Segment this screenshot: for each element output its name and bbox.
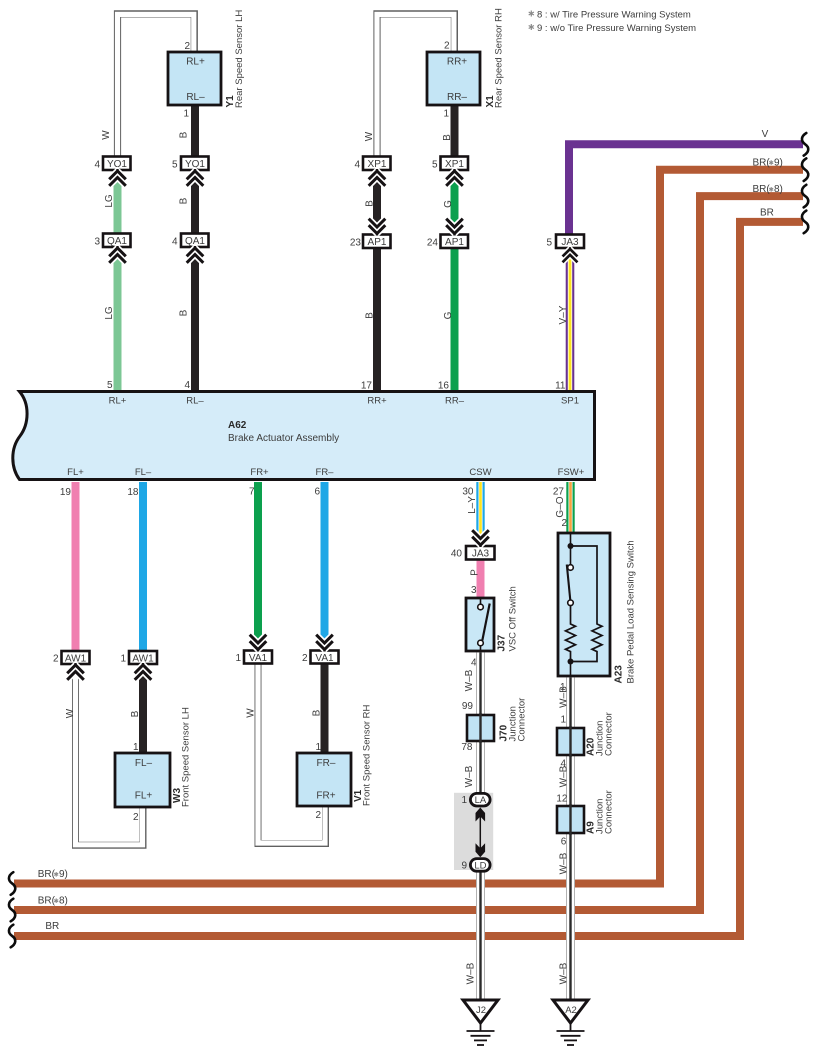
svg-text:2: 2 xyxy=(133,812,139,823)
wire V (violet) to JA3 xyxy=(569,129,808,235)
svg-text:5: 5 xyxy=(546,238,552,249)
svg-text:1: 1 xyxy=(443,109,449,120)
svg-text:2: 2 xyxy=(444,41,450,52)
svg-text:W–B: W–B xyxy=(559,686,570,708)
svg-text:BR(: BR( xyxy=(753,184,771,195)
wire B (XP1 to AP1) xyxy=(373,180,381,226)
svg-text:24: 24 xyxy=(427,238,439,249)
svg-text:W–B: W–B xyxy=(464,765,475,787)
svg-text:B: B xyxy=(179,309,190,316)
wire W (Y1 pin2 loop to YQ1) xyxy=(118,14,195,158)
wire LG (QA1 to A62 pin5) xyxy=(114,257,122,391)
svg-text:G: G xyxy=(443,200,454,208)
svg-text:V–Y: V–Y xyxy=(558,305,569,324)
svg-text:B: B xyxy=(179,197,190,204)
wire W (X1 pin2 loop to XP1) xyxy=(377,14,454,158)
svg-text:A23: A23 xyxy=(614,665,625,684)
junction connector A20 xyxy=(557,712,615,769)
svg-text:4: 4 xyxy=(354,160,360,171)
svg-text:Brake Pedal Load Sensing Switc: Brake Pedal Load Sensing Switch xyxy=(626,540,637,683)
svg-text:B: B xyxy=(130,710,141,717)
wire B (AW1 to W3 pin1) xyxy=(139,674,147,754)
svg-text:W–B: W–B xyxy=(464,669,475,691)
switch J37 VSC Off Switch xyxy=(466,586,519,668)
wire L (A62 pin6 to VA1) xyxy=(321,482,329,641)
svg-text:18: 18 xyxy=(127,487,139,498)
svg-text:1: 1 xyxy=(183,109,189,120)
svg-text:9): 9) xyxy=(59,869,68,880)
svg-text:1: 1 xyxy=(461,795,467,806)
svg-text:RL+: RL+ xyxy=(186,57,205,68)
wire P (JA3 to J37 pin3) xyxy=(470,559,481,598)
svg-text:3: 3 xyxy=(94,237,100,248)
svg-text:9): 9) xyxy=(774,157,783,168)
ground A2 xyxy=(553,1000,588,1045)
svg-text:4: 4 xyxy=(94,160,100,171)
svg-text:VSC Off Switch: VSC Off Switch xyxy=(508,586,519,651)
sensor Y1 xyxy=(168,10,245,120)
wire G (XP1 to AP1) xyxy=(451,180,459,226)
wire B (AP1 to A62 pin17) xyxy=(373,248,381,391)
svg-text:23: 23 xyxy=(350,238,362,249)
connector 4 QA1 xyxy=(172,234,209,248)
junction connector J70 xyxy=(461,698,527,753)
svg-text:W: W xyxy=(364,131,375,141)
svg-text:19: 19 xyxy=(60,487,72,498)
wire B (VA1 to V1 pin1) xyxy=(321,664,329,754)
svg-text:FL+: FL+ xyxy=(67,467,84,478)
svg-text:4: 4 xyxy=(172,237,178,248)
svg-text:8): 8) xyxy=(59,895,68,906)
svg-text:1: 1 xyxy=(235,653,241,664)
svg-text:JA3: JA3 xyxy=(472,549,490,560)
svg-text:5: 5 xyxy=(432,160,438,171)
svg-text:CSW: CSW xyxy=(469,467,491,478)
svg-text:LG: LG xyxy=(104,306,115,320)
svg-text:J2: J2 xyxy=(476,1005,486,1016)
svg-text:Front Speed Sensor LH: Front Speed Sensor LH xyxy=(181,707,192,807)
wire W (AW1 loop to W3 pin2) xyxy=(76,674,144,846)
svg-text:2: 2 xyxy=(302,653,308,664)
svg-text:Brake Actuator Assembly: Brake Actuator Assembly xyxy=(228,433,339,444)
svg-text:A2: A2 xyxy=(565,1005,577,1016)
svg-text:W: W xyxy=(101,130,112,140)
wire L (A62 pin18 to AW1) xyxy=(139,482,147,651)
wire P pink (A62 pin19 to AW1) xyxy=(72,482,80,651)
wire G (A62 pin7 to VA1) xyxy=(254,482,262,641)
svg-text:W–B: W–B xyxy=(559,852,570,874)
svg-text:B: B xyxy=(365,200,376,207)
svg-text:30: 30 xyxy=(462,487,474,498)
svg-text:W–B: W–B xyxy=(559,962,570,984)
svg-text:6: 6 xyxy=(314,487,320,498)
svg-text:Rear Speed Sensor LH: Rear Speed Sensor LH xyxy=(234,10,245,108)
switch A23 Brake Pedal Load Sensing Switch xyxy=(558,533,637,693)
connector 1 AW1 xyxy=(120,651,157,665)
svg-text:27: 27 xyxy=(553,487,565,498)
ground J2 xyxy=(463,1000,498,1045)
svg-text:1: 1 xyxy=(315,742,321,753)
connector 3 QA1 xyxy=(94,234,130,248)
svg-text:17: 17 xyxy=(361,381,373,392)
wire G-O (A62 pin27 FSW+ to A23) xyxy=(555,482,571,534)
wire B (X1 pin1 to XP1) xyxy=(451,105,459,157)
connector 40 JA3 xyxy=(451,546,495,560)
svg-text:4: 4 xyxy=(560,759,566,770)
svg-text:VA1: VA1 xyxy=(249,653,268,664)
connector 1 VA1 xyxy=(235,651,272,665)
wire W-B (J37 to J70 to LA) xyxy=(464,653,481,794)
svg-text:LD: LD xyxy=(474,860,486,871)
svg-text:A62: A62 xyxy=(228,420,247,431)
connector 5 YQ1 xyxy=(172,157,209,171)
svg-text:RR+: RR+ xyxy=(447,57,467,68)
svg-text:BR(: BR( xyxy=(753,157,771,168)
junction connector A9 xyxy=(556,790,614,847)
brake actuator A62 xyxy=(13,380,595,498)
svg-text:AP1: AP1 xyxy=(445,237,464,248)
svg-text:RR+: RR+ xyxy=(367,396,387,407)
svg-text:12: 12 xyxy=(556,794,568,805)
shielded connectors LA / LD xyxy=(454,793,493,872)
svg-text:4: 4 xyxy=(184,380,190,391)
wire BR xyxy=(9,207,808,947)
svg-text:G–O: G–O xyxy=(555,496,566,517)
svg-text:40: 40 xyxy=(451,549,463,560)
connector 4 YQ1 xyxy=(94,157,130,171)
connector 2 VA1 xyxy=(302,651,339,665)
svg-text:BR(: BR( xyxy=(38,895,56,906)
svg-text:Connector: Connector xyxy=(604,712,615,756)
svg-text:Connector: Connector xyxy=(517,698,528,742)
svg-text:FR+: FR+ xyxy=(250,467,269,478)
sensor V1 xyxy=(297,704,373,821)
svg-text:BR: BR xyxy=(45,921,59,932)
svg-text:FR–: FR– xyxy=(317,758,336,769)
wire W-B (LD to ground J2) xyxy=(466,868,481,1000)
svg-text:FR–: FR– xyxy=(316,467,335,478)
wire B (QA1 to A62 pin4) xyxy=(191,257,199,391)
svg-text:L–Y: L–Y xyxy=(467,496,478,514)
connector 4 XP1 xyxy=(354,157,390,171)
svg-text:5: 5 xyxy=(107,380,113,391)
wire BR(*8) xyxy=(9,184,808,921)
svg-text:11: 11 xyxy=(555,381,566,392)
svg-text:2: 2 xyxy=(315,810,321,821)
wire V-Y (JA3 to A62 pin11 SP1) xyxy=(558,256,570,391)
svg-text:BR: BR xyxy=(760,207,774,218)
svg-text:B: B xyxy=(179,131,190,138)
svg-text:B: B xyxy=(442,134,453,141)
svg-text:16: 16 xyxy=(438,381,450,392)
wire W-B (A23 to A20 to A9 to ground A2) xyxy=(559,678,571,1001)
svg-text:1: 1 xyxy=(120,654,126,665)
svg-text:2: 2 xyxy=(561,518,567,529)
svg-text:W: W xyxy=(65,708,76,718)
wire color labels xyxy=(65,130,454,719)
svg-text:Front Speed Sensor RH: Front Speed Sensor RH xyxy=(362,704,373,806)
connector 5 XP1 xyxy=(432,157,468,171)
svg-text:6: 6 xyxy=(561,837,567,848)
svg-text:FSW+: FSW+ xyxy=(558,467,585,478)
wire W (VA1 loop to V1 pin2) xyxy=(258,664,326,844)
sensor W3 xyxy=(115,707,192,823)
sensor X1 xyxy=(427,8,505,119)
svg-text:1: 1 xyxy=(133,742,139,753)
svg-text:AP1: AP1 xyxy=(368,237,387,248)
svg-text:Rear Speed Sensor RH: Rear Speed Sensor RH xyxy=(494,8,505,108)
wire B (Y1 pin1 to YQ1) xyxy=(191,105,199,157)
svg-text:LG: LG xyxy=(104,194,115,208)
svg-text:VA1: VA1 xyxy=(315,653,334,664)
svg-text:J37: J37 xyxy=(497,634,508,651)
wire BR(*9) xyxy=(9,157,808,895)
svg-text:FL+: FL+ xyxy=(135,791,153,802)
svg-text:RL–: RL– xyxy=(186,92,205,103)
svg-text:W: W xyxy=(246,708,257,718)
connector 23 AP1 xyxy=(350,235,391,249)
svg-text:9: 9 xyxy=(461,860,467,871)
svg-text:V: V xyxy=(762,129,769,140)
svg-text:RL–: RL– xyxy=(186,396,204,407)
svg-text:78: 78 xyxy=(461,742,473,753)
svg-text:8 : w/ Tire Pressure Warning S: 8 : w/ Tire Pressure Warning System xyxy=(537,9,691,20)
svg-text:FL–: FL– xyxy=(135,758,153,769)
svg-text:1: 1 xyxy=(560,715,566,726)
svg-text:3: 3 xyxy=(471,585,477,596)
svg-text:FL–: FL– xyxy=(135,467,152,478)
connector 5 JA3 xyxy=(546,235,584,249)
note legend w/ Tire Pressure xyxy=(529,9,696,34)
svg-text:SP1: SP1 xyxy=(561,396,579,407)
svg-text:RL+: RL+ xyxy=(109,396,127,407)
wire L-Y (A62 pin30 CSW to JA3) xyxy=(467,482,481,537)
svg-text:99: 99 xyxy=(462,701,474,712)
wire B (YQ1 to QA1) xyxy=(191,180,199,234)
svg-text:8): 8) xyxy=(774,184,783,195)
connector 2 AW1 xyxy=(53,651,90,665)
svg-text:W–B: W–B xyxy=(466,962,477,984)
svg-text:BR(: BR( xyxy=(38,869,56,880)
svg-text:2: 2 xyxy=(53,654,59,665)
svg-text:LA: LA xyxy=(475,795,487,806)
svg-text:2: 2 xyxy=(184,41,190,52)
svg-text:B: B xyxy=(365,312,376,319)
svg-text:B: B xyxy=(312,709,323,716)
svg-text:5: 5 xyxy=(172,160,178,171)
svg-text:G: G xyxy=(443,311,454,319)
connector 24 AP1 xyxy=(427,235,468,249)
svg-text:Connector: Connector xyxy=(604,790,615,834)
svg-text:RR–: RR– xyxy=(447,92,467,103)
svg-text:9 : w/o Tire Pressure Warning: 9 : w/o Tire Pressure Warning System xyxy=(537,23,696,34)
svg-text:P: P xyxy=(470,569,481,576)
wire G (AP1 to A62 pin16) xyxy=(451,248,459,391)
svg-text:FR+: FR+ xyxy=(316,791,335,802)
wire LG (YQ1 to QA1) xyxy=(114,180,122,234)
svg-text:RR–: RR– xyxy=(445,396,465,407)
